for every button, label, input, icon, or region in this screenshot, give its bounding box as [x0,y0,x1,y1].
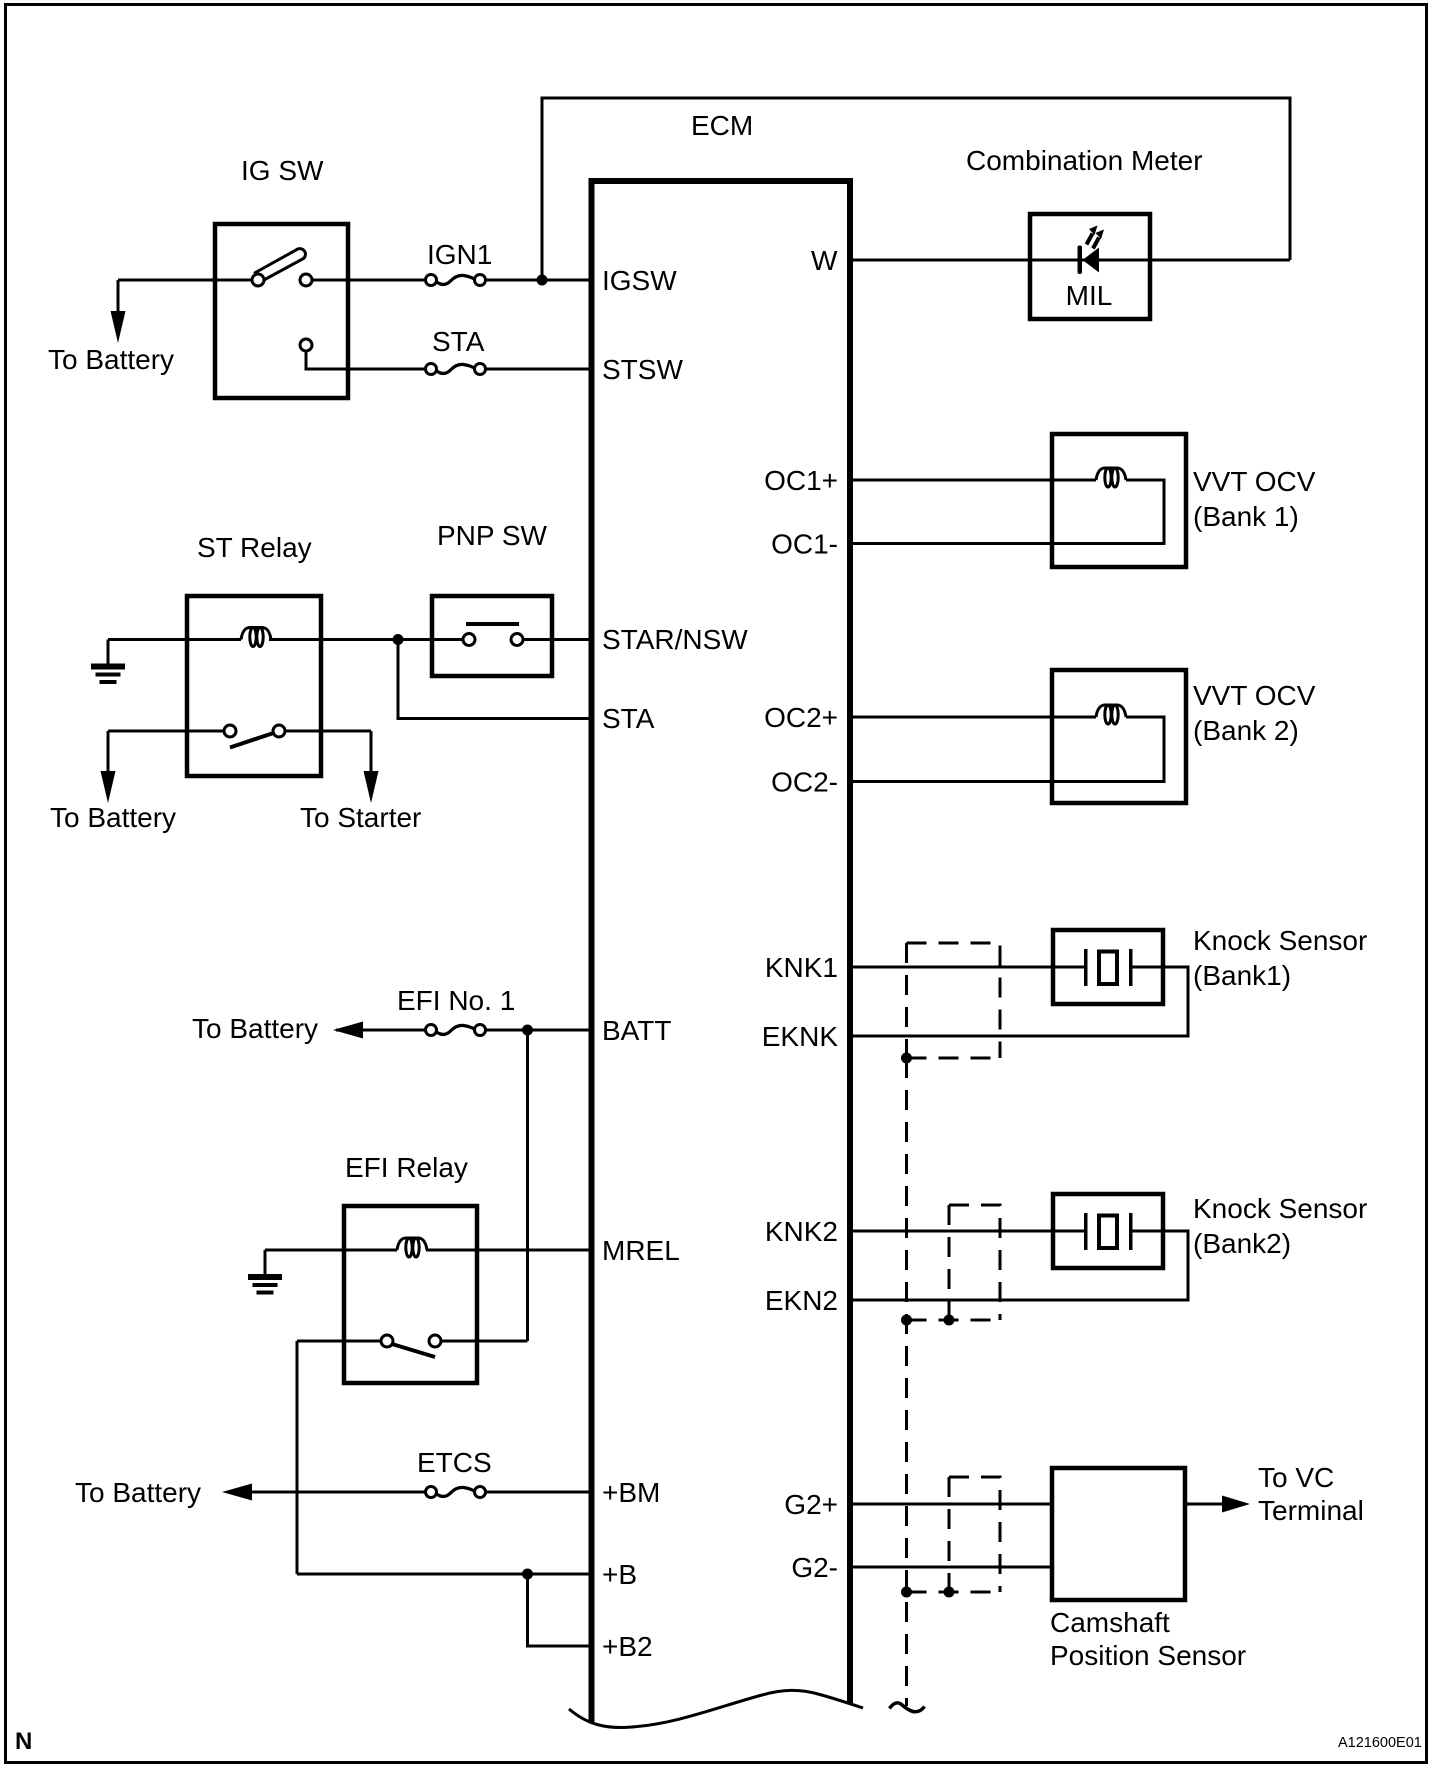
svg-text:ETCS: ETCS [417,1447,492,1478]
svg-text:VVT OCV: VVT OCV [1193,680,1316,711]
svg-text:W: W [811,245,838,276]
svg-text:MREL: MREL [602,1235,680,1266]
svg-text:A121600E01: A121600E01 [1338,1735,1422,1751]
svg-text:To Starter: To Starter [300,802,421,833]
svg-text:PNP SW: PNP SW [437,520,548,551]
svg-text:Knock Sensor: Knock Sensor [1193,1193,1367,1224]
svg-text:EFI No. 1: EFI No. 1 [397,985,515,1016]
svg-text:G2+: G2+ [784,1489,838,1520]
svg-text:To Battery: To Battery [50,802,176,833]
svg-text:VVT OCV: VVT OCV [1193,466,1316,497]
svg-text:STA: STA [432,326,485,357]
svg-text:STA: STA [602,703,655,734]
svg-text:Camshaft: Camshaft [1050,1607,1170,1638]
svg-text:STAR/NSW: STAR/NSW [602,624,748,655]
svg-text:To Battery: To Battery [192,1013,318,1044]
svg-text:(Bank 1): (Bank 1) [1193,501,1299,532]
svg-text:To VC: To VC [1258,1462,1334,1493]
svg-text:STSW: STSW [602,354,683,385]
svg-text:(Bank2): (Bank2) [1193,1228,1291,1259]
svg-text:EKN2: EKN2 [765,1285,838,1316]
svg-text:ST Relay: ST Relay [197,532,312,563]
svg-text:BATT: BATT [602,1015,671,1046]
svg-text:EKNK: EKNK [762,1021,839,1052]
svg-text:OC1+: OC1+ [764,465,838,496]
svg-text:Position Sensor: Position Sensor [1050,1640,1246,1671]
svg-text:N: N [15,1728,32,1755]
svg-text:+B: +B [602,1559,637,1590]
svg-text:To Battery: To Battery [48,344,174,375]
svg-text:EFI Relay: EFI Relay [345,1152,468,1183]
svg-text:IGSW: IGSW [602,265,677,296]
svg-text:OC1-: OC1- [771,529,838,560]
svg-text:Knock Sensor: Knock Sensor [1193,925,1367,956]
svg-text:+BM: +BM [602,1477,660,1508]
svg-text:Combination Meter: Combination Meter [966,145,1203,176]
svg-text:OC2+: OC2+ [764,702,838,733]
svg-text:MIL: MIL [1066,280,1113,311]
svg-text:KNK1: KNK1 [765,952,838,983]
svg-text:(Bank 2): (Bank 2) [1193,715,1299,746]
svg-text:+B2: +B2 [602,1631,653,1662]
svg-text:To Battery: To Battery [75,1477,201,1508]
svg-text:(Bank1): (Bank1) [1193,960,1291,991]
svg-text:G2-: G2- [791,1552,838,1583]
svg-text:KNK2: KNK2 [765,1216,838,1247]
svg-text:Terminal: Terminal [1258,1495,1364,1526]
svg-text:IGN1: IGN1 [427,239,492,270]
svg-text:OC2-: OC2- [771,767,838,798]
svg-text:IG SW: IG SW [241,155,324,186]
svg-text:ECM: ECM [691,110,753,141]
